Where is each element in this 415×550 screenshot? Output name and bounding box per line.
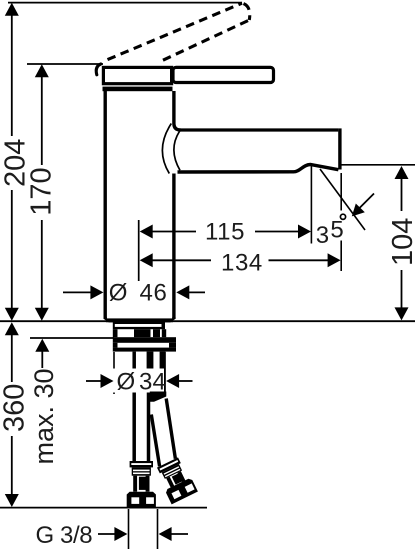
svg-text:4: 4 xyxy=(153,368,166,395)
svg-text:max. 30: max. 30 xyxy=(29,368,59,464)
faucet body right edge lower xyxy=(172,174,175,319)
hose elbow flag xyxy=(150,392,167,402)
base gasket xyxy=(113,322,165,329)
wire: aerator level extension to right xyxy=(341,164,415,166)
shank tube stubs xyxy=(147,352,154,392)
svg-text:104: 104 xyxy=(387,218,415,266)
supply hose (angled) xyxy=(151,399,175,467)
body bottom edge with chamfers xyxy=(104,317,176,322)
dimension 204 xyxy=(0,3,31,321)
svg-text:3: 3 xyxy=(316,222,329,249)
svg-text:Ø: Ø xyxy=(109,279,128,306)
spout top edge xyxy=(179,128,338,131)
wire: counter top line xyxy=(0,320,415,322)
wire: aerator vertical extension line xyxy=(310,166,312,244)
wire: lever-top extension line xyxy=(27,63,103,65)
dimension 360 xyxy=(0,322,30,507)
dimension Ø46 xyxy=(63,279,205,306)
svg-text:170: 170 xyxy=(26,167,58,215)
dimension max. 30 xyxy=(29,339,59,465)
svg-text:46: 46 xyxy=(140,279,168,306)
dimension Ø34 xyxy=(86,352,193,395)
dimension 115 xyxy=(140,219,311,246)
svg-text:5: 5 xyxy=(330,217,343,244)
svg-text:134: 134 xyxy=(221,250,263,277)
svg-text:360: 360 xyxy=(0,384,30,432)
wire: 35 degree diagonal line xyxy=(320,169,365,230)
dimension 170 xyxy=(26,64,58,321)
dashed lever pivot end mark xyxy=(96,64,101,75)
shank band with hose nipples xyxy=(113,329,166,337)
wire: counter bottom line (left) xyxy=(30,337,114,339)
hose connector (vertical) xyxy=(127,461,156,507)
svg-text:115: 115 xyxy=(205,219,245,246)
dimension G 3/8 xyxy=(36,509,189,549)
dimension 104 xyxy=(387,166,415,320)
wire: faucet centerline extension xyxy=(138,220,140,281)
spout bottom edge with aerator xyxy=(178,165,339,173)
spout shoulder crescent outer curve xyxy=(162,124,171,174)
lever handle (horizontal) xyxy=(173,67,274,82)
svg-text:Ø: Ø xyxy=(117,368,136,395)
cartridge ring (dark band) xyxy=(103,87,173,92)
wire: bottom reference line xyxy=(0,507,207,509)
mounting nut xyxy=(113,337,176,351)
lever handle (raised, dashed) xyxy=(108,3,250,60)
wire: spout tip vertical extension line xyxy=(340,173,342,211)
svg-text:G 3/8: G 3/8 xyxy=(36,522,93,549)
dimension 134 xyxy=(140,250,341,277)
handle cap xyxy=(103,67,171,83)
supply hose (vertical) xyxy=(134,352,148,464)
hose connector (angled) xyxy=(154,456,198,504)
spout shoulder crescent inner curve xyxy=(174,131,180,170)
wire: top extension line (handle raised height) xyxy=(8,2,242,4)
faucet body right edge upper xyxy=(174,91,181,130)
dimension 35 degrees xyxy=(316,194,374,250)
spout right edge xyxy=(338,128,341,169)
svg-text:3: 3 xyxy=(139,368,152,395)
faucet body left edge xyxy=(103,91,106,319)
